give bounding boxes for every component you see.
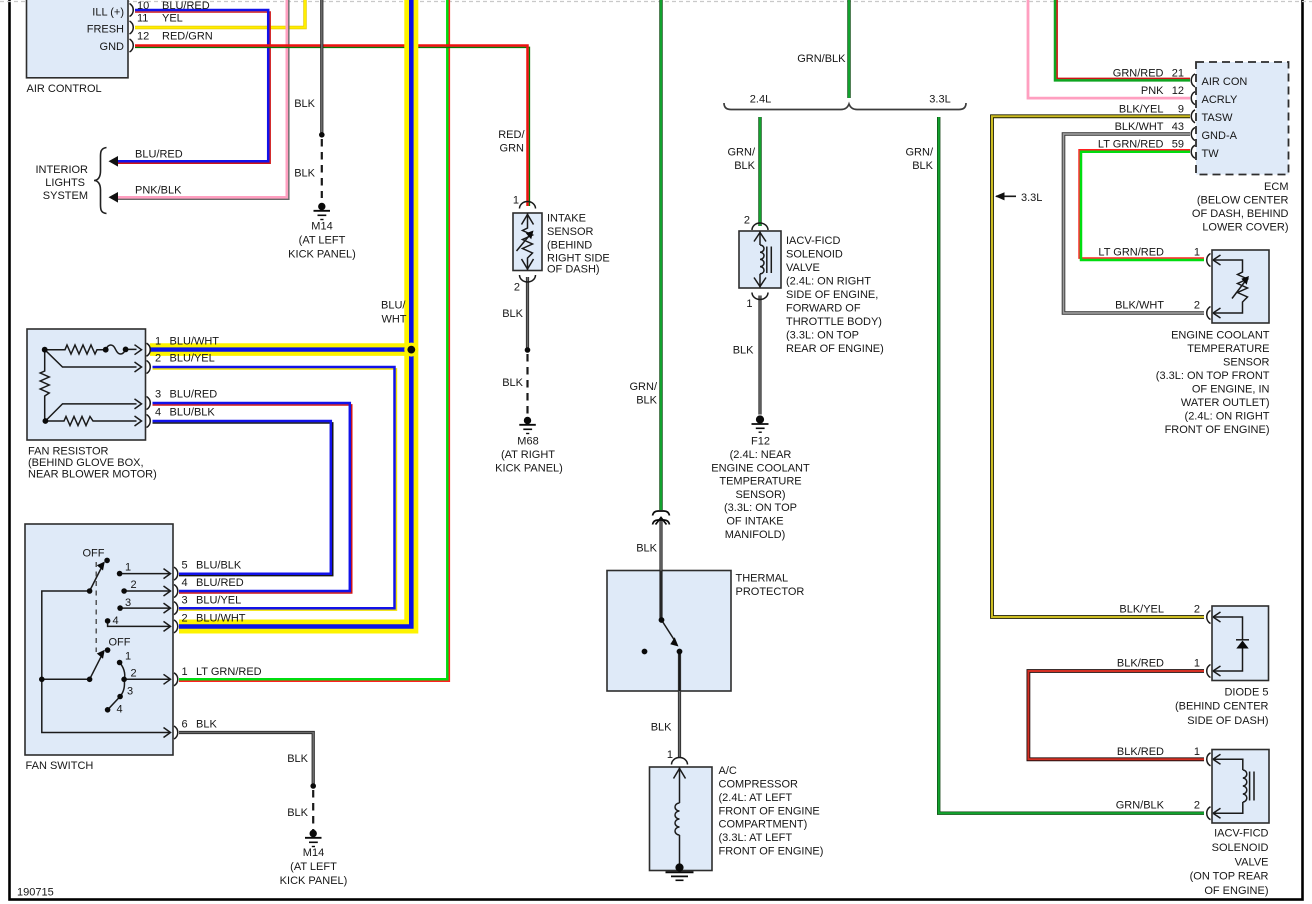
svg-text:THROTTLE BODY): THROTTLE BODY) [786,316,882,328]
wire BLK/WHT (ECM GND-A pin 43 to ECT sensor pin 2) [1064,134,1205,313]
svg-text:SIDE OF ENGINE,: SIDE OF ENGINE, [786,289,878,301]
svg-text:2: 2 [182,613,188,625]
sensor ENGINE COOLANT TEMPERATURE SENSOR box [1212,250,1269,323]
arrowhead ECT diagonal [1241,276,1249,285]
wire GRN/RED (to ECM AIR CON pin 21) [1055,0,1190,80]
inline connector symbol on GRN/BLK center line [653,511,670,525]
wire PNK/BLK (to interior lights) [117,0,289,199]
svg-text:ILL (+): ILL (+) [92,7,124,19]
wire diagonal to pin 2 [45,350,137,367]
svg-text:1: 1 [125,562,131,574]
brace INTERIOR LIGHTS SYSTEM [94,148,107,214]
contact dots lower switch [105,647,111,653]
wire BLU/YEL (FAN RESISTOR pin 2 to FAN SWITCH pin 3) [153,367,397,610]
svg-text:A/C: A/C [719,765,737,777]
svg-text:10: 10 [137,0,149,12]
contact dots upper switch [104,558,110,564]
svg-text:GRN/BLK: GRN/BLK [1116,800,1165,812]
svg-text:1: 1 [746,298,752,310]
svg-text:BLK: BLK [734,160,755,172]
svg-text:BLU/YEL: BLU/YEL [196,594,241,606]
svg-text:4: 4 [155,407,161,419]
svg-text:SENSOR: SENSOR [1223,357,1270,369]
svg-text:GRN/BLK: GRN/BLK [797,53,846,65]
svg-text:(3.3L: ON TOP FRONT: (3.3L: ON TOP FRONT [1156,370,1270,382]
wire RED/GRN (AIR CONTROL pin 12 to INTAKE SENSOR pin 1) [135,46,529,207]
svg-text:LIGHTS: LIGHTS [45,177,85,189]
svg-text:SYSTEM: SYSTEM [43,190,88,202]
svg-text:3: 3 [182,594,188,606]
svg-text:5: 5 [182,560,188,572]
svg-text:FORWARD OF: FORWARD OF [786,303,861,315]
wire BLK (connector to THERMAL PROTECTOR) [659,520,662,620]
pin arcs INTAKE SENSOR 1,2 [520,202,536,209]
svg-text:FAN RESISTOR: FAN RESISTOR [28,446,109,458]
ground inside A/C COMPRESSOR [666,864,694,880]
svg-text:2: 2 [514,282,520,294]
svg-text:(2.4L: ON RIGHT: (2.4L: ON RIGHT [1185,411,1270,423]
svg-text:BLK: BLK [294,98,315,110]
svg-text:FAN SWITCH: FAN SWITCH [26,760,94,772]
svg-text:2: 2 [1194,800,1200,812]
wire BLU/WHT thick horizontal (FAN RESISTOR pin 1) [150,343,411,356]
svg-text:AIR CON: AIR CON [1202,76,1248,88]
svg-text:3.3L: 3.3L [1021,192,1042,204]
wire BLK (THERMAL PROTECTOR to A/C COMPRESSOR pin 1) [678,652,681,759]
wire LT GRN/RED vertical to FAN SWITCH pin 1 [179,0,449,681]
svg-text:4: 4 [113,615,119,627]
svg-text:BLU/RED: BLU/RED [196,577,244,589]
svg-text:PROTECTOR: PROTECTOR [736,586,805,598]
svg-text:4: 4 [182,577,188,589]
svg-text:(AT LEFT: (AT LEFT [299,235,346,247]
svg-text:12: 12 [137,31,149,43]
svg-text:INTAKE: INTAKE [547,213,586,225]
svg-text:SOLENOID: SOLENOID [786,249,843,261]
splice dot + dashed + ground M14 (bottom) [310,783,316,789]
svg-text:IACV-FICD: IACV-FICD [1214,828,1268,840]
svg-text:COMPARTMENT): COMPARTMENT) [719,819,808,831]
svg-text:OFF: OFF [109,637,131,649]
svg-text:190715: 190715 [17,887,54,899]
svg-text:GRN: GRN [500,143,525,155]
arrowhead upper switch lever [97,562,105,571]
svg-text:VALVE: VALVE [786,262,820,274]
open arrowheads FAN SWITCH pins [164,569,171,738]
switch THERMAL PROTECTOR box [607,571,731,692]
solenoid IACV-FICD SOLENOID VALVE (bottom right) box [1212,750,1269,824]
splice dot + ground F12 [752,416,769,432]
ECT sensor internals (thermistor) [1213,255,1248,318]
svg-text:1: 1 [1194,658,1200,670]
svg-text:LOWER COVER): LOWER COVER) [1202,222,1288,234]
pin arcs bottom IACV pins 1,2 [1207,753,1211,820]
svg-text:(2.4L: AT LEFT: (2.4L: AT LEFT [719,792,793,804]
wire GRN/BLK center vertical [659,0,662,510]
svg-text:SIDE OF DASH): SIDE OF DASH) [1187,715,1268,727]
svg-text:RED/: RED/ [498,129,525,141]
ground M14 (top, at left kick panel) [314,203,331,219]
svg-text:9: 9 [1178,103,1184,115]
pin arcs ECT sensor pins 1,2 [1207,254,1211,320]
A/C COMPRESSOR internals (motor coil) [674,768,686,869]
wire BLK (FAN SWITCH pin 6 to M14 ground bottom) [179,733,313,787]
wire PNK (to ECM ACRLY pin 12) [1028,0,1190,98]
svg-text:BLU/BLK: BLU/BLK [196,560,242,572]
svg-text:BLK/YEL: BLK/YEL [1119,103,1164,115]
svg-text:OF ENGINE): OF ENGINE) [1204,885,1268,897]
svg-text:RED/GRN: RED/GRN [162,31,213,43]
svg-text:FRONT OF ENGINE): FRONT OF ENGINE) [1165,424,1270,436]
svg-text:1: 1 [513,195,519,207]
svg-text:THERMAL: THERMAL [736,573,789,585]
svg-text:BLK/WHT: BLK/WHT [1115,300,1164,312]
svg-text:IACV-FICD: IACV-FICD [786,235,840,247]
svg-text:GRN/RED: GRN/RED [1113,68,1164,80]
resistor zigzag row 4 [45,417,136,426]
svg-text:6: 6 [182,719,188,731]
svg-text:2: 2 [131,579,137,591]
svg-text:BLU/: BLU/ [381,300,406,312]
resistor zigzag row 1 [45,345,106,354]
svg-text:BLU/RED: BLU/RED [170,389,218,401]
svg-text:FRESH: FRESH [87,24,124,36]
svg-text:FRONT OF ENGINE): FRONT OF ENGINE) [719,846,824,858]
wire BLK/YEL (ECM TASW pin 9 to DIODE 5 pin 2) [992,116,1204,617]
svg-text:GRN/: GRN/ [728,147,756,159]
svg-text:2: 2 [131,668,137,680]
svg-text:KICK PANEL): KICK PANEL) [495,463,563,475]
svg-text:1: 1 [667,749,673,761]
svg-text:21: 21 [1172,68,1184,80]
svg-text:3: 3 [127,686,133,698]
svg-text:LT GRN/RED: LT GRN/RED [1098,247,1164,259]
svg-text:GND: GND [100,41,125,53]
wire GRN/BLK 3.3L branch to bottom IACV pin 2 [939,117,1204,813]
svg-text:ENGINE COOLANT: ENGINE COOLANT [711,462,810,474]
svg-text:KICK PANEL): KICK PANEL) [280,875,348,887]
svg-text:M68: M68 [517,436,538,448]
svg-text:BLK: BLK [733,345,754,357]
svg-text:SENSOR): SENSOR) [735,489,785,501]
svg-text:BLK: BLK [651,722,672,734]
diode DIODE 5 box [1212,606,1269,681]
svg-text:OFF: OFF [83,548,105,560]
arrowhead PNK/BLK to interior lights [109,192,119,203]
svg-text:WATER OUTLET): WATER OUTLET) [1181,397,1270,409]
svg-text:(BELOW CENTER: (BELOW CENTER [1197,195,1289,207]
svg-text:BLK/RED: BLK/RED [1117,746,1164,758]
svg-text:BLU/RED: BLU/RED [135,149,183,161]
pin arcs IACV 2.4L pins 2,1 [752,223,768,230]
IACV 2.4L internals (solenoid coil + core bars) [754,232,771,288]
wire BLU/RED (AIR CONTROL pin 10 to interior lights) [117,10,270,163]
resistor pack FAN RESISTOR box [27,329,146,440]
INTAKE SENSOR internals (variable resistor) [517,214,534,271]
svg-text:2: 2 [1194,300,1200,312]
svg-text:3: 3 [155,389,161,401]
pin arc A/C COMPRESSOR pin 1 [672,758,688,765]
svg-text:BLU/BLK: BLU/BLK [170,407,216,419]
svg-text:PNK/BLK: PNK/BLK [135,185,182,197]
svg-text:1: 1 [1194,746,1200,758]
svg-text:MANIFOLD): MANIFOLD) [725,529,786,541]
svg-text:2: 2 [155,353,161,365]
svg-text:OF DASH, BEHIND: OF DASH, BEHIND [1192,208,1289,220]
switch FAN SWITCH box [25,524,173,755]
svg-text:(2.4L: ON RIGHT: (2.4L: ON RIGHT [786,276,871,288]
resistor zigzag left vertical [40,350,49,421]
svg-text:1: 1 [1194,247,1200,259]
junction node BLU/WHT (yellow ring + dot) [404,343,418,357]
svg-text:43: 43 [1172,121,1184,133]
svg-text:VALVE: VALVE [1235,856,1269,868]
svg-text:F12: F12 [751,436,770,448]
dashed BLK to M14 top [321,139,323,198]
thermal fuse wiggle row 1 [106,345,137,354]
svg-text:BLK: BLK [294,168,315,180]
svg-text:GRN/: GRN/ [630,381,658,393]
wire GRN/BLK 2.4L branch [758,117,761,226]
wire BLK (INTAKE SENSOR pin 2 to M68 ground) [526,277,529,349]
wire GRN/BLK right main vertical [847,0,850,98]
pin arcs FAN RESISTOR 1..4 [147,343,151,427]
svg-text:INTERIOR: INTERIOR [35,164,88,176]
wire BLK/RED (DIODE 5 pin 1 to bottom IACV pin 1) [1028,671,1204,759]
svg-text:GND-A: GND-A [1202,130,1238,142]
svg-text:(ON TOP REAR: (ON TOP REAR [1190,871,1269,883]
wire diagonal to pin 3 [45,404,136,421]
svg-text:12: 12 [1172,85,1184,97]
wire LT GRN/RED (ECM TW pin 59 to ECT sensor pin 1) [1079,150,1204,260]
svg-text:OF INTAKE: OF INTAKE [726,516,783,528]
arrowhead lower switch lever [97,650,105,659]
pin arcs ECM pins 21,12,9,43,59 [1191,74,1195,158]
svg-text:BLK: BLK [636,395,657,407]
svg-text:BLK: BLK [636,543,657,555]
svg-text:PNK: PNK [1141,85,1164,97]
svg-text:(AT RIGHT: (AT RIGHT [501,449,555,461]
svg-text:(AT LEFT: (AT LEFT [290,861,337,873]
svg-text:BLK: BLK [502,308,523,320]
svg-text:FRONT OF ENGINE: FRONT OF ENGINE [719,806,820,818]
svg-text:2: 2 [1194,604,1200,616]
svg-text:GRN/: GRN/ [906,147,934,159]
svg-text:2.4L: 2.4L [750,94,771,106]
connector AIR CONTROL box [27,0,129,78]
dashed rotary axis [95,562,97,652]
svg-text:BLK/RED: BLK/RED [1117,658,1164,670]
FAN RESISTOR internals [40,345,136,426]
arrowhead on intake sensor diagonal [526,231,534,240]
svg-text:3: 3 [125,597,131,609]
svg-text:M14: M14 [311,221,332,233]
brace 2.4L/3.3L split [724,103,966,110]
FAN SWITCH internals: upper rotary switch [42,568,171,733]
ECM box (dashed) [1196,62,1289,175]
motor A/C COMPRESSOR box [650,767,713,871]
svg-text:1: 1 [182,666,188,678]
svg-text:(3.3L: ON TOP: (3.3L: ON TOP [724,502,797,514]
svg-text:(2.4L: NEAR: (2.4L: NEAR [730,449,792,461]
solenoid IACV-FICD SOLENOID VALVE (2.4L) box [739,231,781,288]
svg-text:TEMPERATURE: TEMPERATURE [719,476,801,488]
svg-text:BLU/WHT: BLU/WHT [196,613,246,625]
svg-text:BLU/RED: BLU/RED [162,0,210,12]
DIODE 5 internals [1213,612,1249,676]
wire BLK to M14 ground (top) [320,0,323,135]
svg-text:DIODE 5: DIODE 5 [1224,686,1268,698]
svg-text:NEAR BLOWER MOTOR): NEAR BLOWER MOTOR) [28,469,157,481]
svg-text:1: 1 [155,335,161,347]
svg-text:(BEHIND GLOVE BOX,: (BEHIND GLOVE BOX, [28,457,144,469]
bottom IACV internals (solenoid coil + core bars) [1213,754,1254,818]
svg-text:59: 59 [1172,139,1184,151]
svg-text:ECM: ECM [1264,181,1288,193]
svg-text:TW: TW [1202,148,1220,160]
svg-text:ACRLY: ACRLY [1202,94,1239,106]
pin arcs AIR CONTROL pins 10,11,12 [130,4,134,53]
svg-text:BLU/YEL: BLU/YEL [170,353,215,365]
wire BLU/WHT thick vertical (to FAN SWITCH pin 2) [179,0,411,627]
arrowhead BLU/RED to interior lights [109,156,119,167]
svg-text:11: 11 [137,13,148,25]
svg-text:COMPRESSOR: COMPRESSOR [719,779,799,791]
svg-text:(3.3L: ON TOP: (3.3L: ON TOP [786,330,859,342]
svg-text:BLU/WHT: BLU/WHT [170,335,220,347]
svg-text:1: 1 [125,651,131,663]
svg-text:TASW: TASW [1202,112,1234,124]
svg-text:BLK: BLK [287,753,308,765]
svg-text:OF DASH): OF DASH) [547,264,600,276]
svg-text:2: 2 [744,215,750,227]
svg-text:AIR CONTROL: AIR CONTROL [27,83,102,95]
svg-text:4: 4 [117,704,123,716]
svg-text:WHT: WHT [381,313,406,325]
splice dot on BLK (top M14) [319,132,325,138]
svg-text:(3.3L: AT LEFT: (3.3L: AT LEFT [719,832,793,844]
node dots FAN RESISTOR [42,347,48,353]
svg-text:BLK: BLK [912,160,933,172]
svg-text:REAR OF ENGINE): REAR OF ENGINE) [786,343,884,355]
sensor INTAKE SENSOR box [513,213,542,271]
svg-text:BLK: BLK [287,807,308,819]
svg-text:TEMPERATURE: TEMPERATURE [1187,343,1269,355]
wire BLK (IACV 2.4L pin 1 to F12 ground) [758,296,761,415]
diode triangle [1236,641,1248,649]
svg-text:SOLENOID: SOLENOID [1212,842,1269,854]
splice dot + dashed + ground M68 [525,347,531,353]
wire BLU/RED (FAN RESISTOR pin 3 to FAN SWITCH pin 4) [153,403,352,593]
pin arcs DIODE 5 pins 2,1 [1207,611,1211,678]
svg-text:ENGINE COOLANT: ENGINE COOLANT [1171,329,1270,341]
svg-text:SENSOR: SENSOR [547,226,594,238]
svg-text:(BEHIND CENTER: (BEHIND CENTER [1175,701,1269,713]
svg-text:BLK/YEL: BLK/YEL [1119,604,1164,616]
svg-text:M14: M14 [303,847,324,859]
pin arcs FAN SWITCH 5,4,3,2,1,6 [174,567,178,739]
THERMAL PROTECTOR internals [660,571,662,621]
svg-text:OF ENGINE, IN: OF ENGINE, IN [1192,384,1270,396]
svg-text:3.3L: 3.3L [929,94,950,106]
wire BLU/BLK (FAN RESISTOR pin 4 to FAN SWITCH pin 5) [153,421,333,576]
open arrowheads FAN RESISTOR pins [135,345,142,426]
svg-text:LT GRN/RED: LT GRN/RED [196,666,262,678]
svg-text:KICK PANEL): KICK PANEL) [288,249,356,261]
svg-text:YEL: YEL [162,13,183,25]
FAN SWITCH internals: lower rotary switch [42,656,171,710]
arrow 3.3L pointer [996,195,1016,197]
svg-text:BLK/WHT: BLK/WHT [1115,121,1164,133]
svg-text:(BEHIND: (BEHIND [547,239,592,251]
svg-text:LT GRN/RED: LT GRN/RED [1098,139,1164,151]
svg-text:BLK: BLK [196,719,217,731]
wire YEL (AIR CONTROL pin 11 up) [135,0,305,28]
svg-text:BLK: BLK [502,377,523,389]
